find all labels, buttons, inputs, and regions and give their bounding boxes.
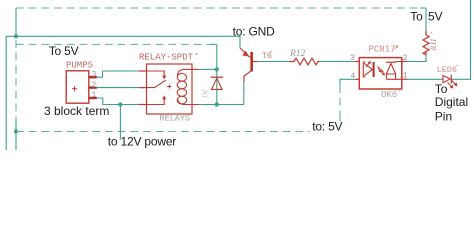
wire: LED6 to right edge, up to digital pin — [452, 0, 471, 79]
wire: relay coil bottom pin to transistor collector — [199, 82, 244, 105]
svg-text:2: 2 — [403, 54, 408, 63]
svg-text:2: 2 — [92, 81, 97, 90]
wire: solid dash-end stub joining top 5V dashed line to corner — [420, 7, 425, 9]
svg-text:To 5V: To 5V — [49, 44, 79, 58]
relay top contact with down arrow — [147, 71, 165, 76]
junction dot at (16,36.3) — [14, 34, 18, 38]
relay refdes tick mark — [196, 53, 198, 55]
wire (ratsnest, dashed): OK6 pin4 net to "to: 5V" label — [339, 85, 341, 121]
svg-text:1: 1 — [92, 91, 97, 100]
PUMP5 pin 1 stub — [89, 97, 97, 99]
wire: T6 base to R12 left — [258, 61, 289, 63]
OK6 photodiode bar — [386, 61, 396, 63]
resistor R11 (vertical) — [423, 35, 429, 55]
svg-text:to 12V power: to 12V power — [108, 134, 177, 148]
PUMP5 pin 2 stub — [89, 86, 97, 88]
LED6 diode symbol — [443, 75, 450, 82]
wire: PUMP5 pin3 to relay top contact (jog up) — [97, 71, 139, 77]
PUMP5 pin 3 stub — [89, 76, 97, 78]
wire: R11 bottom to OK6 pin2 — [408, 54, 427, 62]
svg-text:PC817: PC817 — [369, 44, 396, 54]
transistor T6 label tick — [270, 51, 272, 53]
transistor T6 base stub — [253, 61, 258, 63]
relay left pin stubs — [139, 71, 147, 105]
wire: R12 right to OK6 pin3 — [320, 61, 355, 63]
wire: solid segment of left net through bottom junction to edge — [15, 121, 17, 151]
svg-text:LED6: LED6 — [437, 65, 457, 75]
OK6 internal LED bar — [373, 62, 375, 77]
OK6 light bolt arrow 2 — [381, 69, 384, 74]
PUMP5 plus mark — [72, 86, 77, 91]
OK6 pin 3 stub — [355, 61, 359, 63]
transistor T6 base bar — [250, 52, 253, 72]
junction dot at (216.8,69.4) — [215, 67, 219, 71]
svg-text:3 block term: 3 block term — [44, 104, 109, 118]
terminal block PUMP5 body — [66, 71, 89, 103]
svg-text:RELAYS: RELAYS — [160, 113, 191, 123]
LED6 label tick — [457, 65, 459, 67]
svg-text:D6: D6 — [202, 89, 210, 99]
wire: 12V rail left vertical + GND horizontal top + drop to T6 emitter — [6, 36, 240, 150]
svg-text:3: 3 — [350, 54, 355, 63]
wire (ratsnest, dashed): To 5V net y=44.4 — [16, 43, 217, 45]
wire: solid dash-end stub joining pin4 dashed net to to:5V label — [339, 117, 341, 122]
relay bottom contact with up arrow — [147, 99, 165, 105]
relay coil (4 loops) — [177, 73, 186, 81]
LED6 emission arrow 2 — [452, 80, 456, 84]
OK6 pin 4 stub — [355, 78, 359, 80]
svg-text:OK6: OK6 — [381, 90, 397, 100]
OK6 refdes tick — [399, 90, 401, 92]
OK6 internal LED anode arrow — [366, 63, 370, 67]
OK6 internal LED triangle (outline) — [364, 63, 372, 75]
svg-text:PUMP5: PUMP5 — [66, 61, 93, 71]
svg-text:3: 3 — [92, 70, 97, 79]
optocoupler OK6 body — [359, 58, 402, 89]
relay coil bottom lead / right bottom pin — [178, 99, 199, 105]
junction dot at (16,131.5) — [14, 129, 18, 133]
wire: R11 top lead from dashed corner through "To 5V" gap — [425, 8, 427, 35]
wire: 12V feed down to "to 12V power" label — [119, 105, 121, 140]
OK6 pin 1 stub — [402, 78, 408, 80]
diode D6 (flyback, cathode up) — [211, 76, 223, 78]
resistor R12 — [289, 58, 320, 65]
relay plus mark — [167, 84, 171, 88]
wire (ratsnest, dashed): left vertical x=16 — [15, 40, 17, 121]
relay RELAYS body — [147, 64, 193, 114]
OK6 light bolt arrow 1 — [378, 66, 381, 71]
wire: OK6 pin4 down toward "to: 5V" — [340, 79, 355, 85]
wire: 5V vertical x=216.8 through diode D6 — [216, 44, 218, 104]
resistor R11 label tick — [431, 32, 433, 34]
relay coil top lead / right top pin — [177, 69, 199, 76]
wire: OK6 pin1 to LED6 — [408, 78, 444, 80]
junction dot at (120.4,103.4) — [118, 102, 122, 106]
wire: solid dash-end stub joining To 5V dashed line to corner — [211, 43, 217, 45]
wire: PUMP5 pin2 to relay common arm — [97, 87, 139, 89]
relay common arm (switch lever) — [147, 80, 166, 87]
wire (ratsnest, dashed): bottom horizontal y=131.5 to "to: 5V" — [16, 131, 310, 133]
OK6 internal LED cathode bracket — [363, 62, 365, 77]
svg-text:To: To — [435, 82, 448, 96]
OK6 photodiode leads — [386, 62, 401, 80]
svg-text:to: 5V: to: 5V — [312, 120, 342, 134]
svg-text:4: 4 — [351, 72, 356, 81]
svg-text:R12: R12 — [289, 49, 306, 59]
svg-text:R11: R11 — [429, 38, 438, 51]
LED6 emission arrow 1 — [448, 83, 452, 87]
transistor T6 emitter lead with arrow (PNP) — [240, 48, 250, 57]
svg-text:Pin: Pin — [435, 110, 452, 124]
svg-text:Digital: Digital — [435, 95, 468, 109]
wire: PUMP5 pin1 jog down to relay bottom contact — [97, 98, 139, 105]
junction dot at (216.8,103.4) — [215, 102, 219, 106]
svg-text:To: To — [410, 9, 423, 23]
OK6 part label arrow mark — [395, 46, 398, 49]
wire: relay coil top pin to 5V vertical — [199, 68, 217, 70]
svg-text:to: GND: to: GND — [233, 24, 275, 38]
OK6 pin 2 stub — [402, 61, 408, 63]
wire: stub from top dashed corner down to junction — [15, 8, 17, 36]
svg-text:RELAY-SPDT: RELAY-SPDT — [139, 52, 194, 62]
transistor T6 collector lead — [244, 71, 252, 82]
svg-text:5V: 5V — [428, 9, 442, 23]
wire (ratsnest, dashed): top 5V net y=8 — [16, 7, 426, 9]
svg-text:1: 1 — [403, 72, 408, 81]
OK6 photodiode triangle — [386, 63, 395, 74]
